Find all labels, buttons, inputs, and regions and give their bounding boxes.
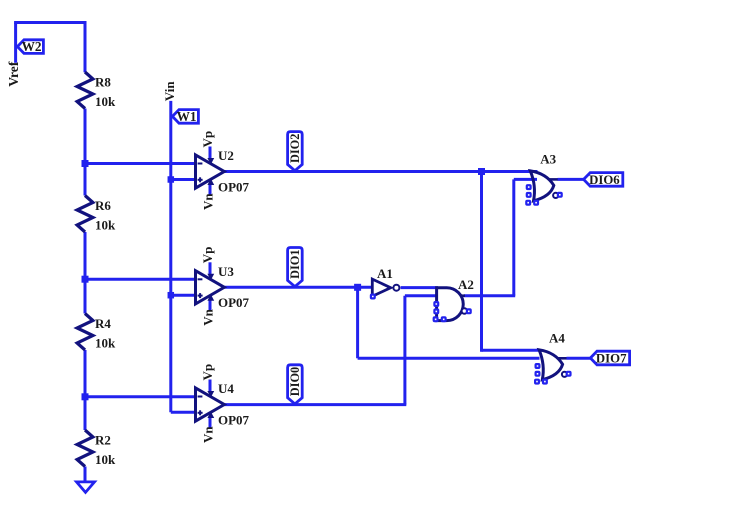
wire to A3 input 2 <box>514 178 537 181</box>
wire to A2 input 2 <box>405 294 437 297</box>
wire Vin vertical <box>169 101 172 412</box>
logic gate A4 input pin squares <box>536 364 540 368</box>
svg-text:A4: A4 <box>549 331 565 346</box>
svg-text:W2: W2 <box>22 39 42 54</box>
op-amp U4 non-inverting input mark <box>198 412 203 414</box>
wire ladder R6-R4 segment <box>84 232 87 314</box>
wire tap node A to U2 inverting input <box>85 162 194 165</box>
logic gate A4 output stub <box>558 357 567 360</box>
wire A4 output to DIO7 <box>567 357 592 360</box>
svg-text:10k: 10k <box>95 94 116 109</box>
op-amp U2 body <box>196 155 225 188</box>
resistor R4 <box>77 314 93 351</box>
ground symbol <box>77 482 95 493</box>
svg-text:OP07: OP07 <box>218 179 250 194</box>
logic gate A2 body <box>437 288 464 321</box>
svg-text:A1: A1 <box>377 266 393 281</box>
logic gate A2 input pin squares <box>434 302 438 306</box>
logic gate A2 output bubble <box>462 308 468 314</box>
svg-text:Vn: Vn <box>201 193 216 210</box>
svg-text:R4: R4 <box>95 316 111 331</box>
inverter A1 output bubble <box>393 285 399 291</box>
resistor R2 <box>77 430 93 467</box>
op-amp U3 Vn power pin <box>209 300 212 311</box>
wire A2 output vertical rise <box>512 179 515 295</box>
inverter A1 body <box>372 279 390 296</box>
wire node DIO2net vertical drop <box>480 172 483 352</box>
wire U4 output horizontal <box>224 403 406 406</box>
wire A2 output horizontal <box>464 294 515 297</box>
wire node DIO1net vertical drop <box>356 287 359 358</box>
net flag DIO0 <box>288 365 303 404</box>
wire top horizontal Vref to ladder <box>14 21 86 24</box>
junction ladder tap B <box>82 276 89 283</box>
net flag DIO1 <box>288 248 303 287</box>
wire Vin to U2 non-inverting input <box>171 178 194 181</box>
svg-text:Vref: Vref <box>6 61 21 87</box>
wire to A4 input 1 <box>482 349 540 352</box>
op-amp U4 Vp power pin <box>209 380 212 393</box>
svg-text:W1: W1 <box>177 109 197 124</box>
logic gate A4 output pin square <box>567 372 571 376</box>
op-amp U2 Vn power pin <box>209 184 212 195</box>
wire U3 output to A1 input <box>224 286 372 289</box>
svg-text:Vp: Vp <box>200 131 215 148</box>
wire ladder R2-ground segment <box>84 467 87 482</box>
net flag DIO6 <box>584 173 623 187</box>
junction ladder tap C <box>82 393 89 400</box>
net flag W2 <box>17 40 43 54</box>
logic gate A2 output stub <box>460 294 465 297</box>
net flag DIO7 <box>590 351 629 365</box>
op-amp U3 inverting input mark <box>198 278 203 280</box>
op-amp U2 non-inverting input mark <box>198 179 203 181</box>
svg-text:U3: U3 <box>218 264 234 279</box>
wire tap node C to U4 inverting input <box>85 395 194 398</box>
wire ladder R8-R6 segment <box>84 109 87 196</box>
wire ladder top vertical <box>84 21 87 72</box>
op-amp U4 body <box>196 388 225 421</box>
wire ladder R4-R2 segment <box>84 350 87 430</box>
wire U2 output to A3 input 1 <box>224 170 538 173</box>
op-amp U3 non-inverting input mark <box>198 295 203 297</box>
wire A1 output to A2 input 1 <box>401 286 438 289</box>
op-amp U2 inverting input mark <box>198 163 203 165</box>
svg-text:10k: 10k <box>95 335 116 350</box>
svg-text:DIO6: DIO6 <box>589 173 620 187</box>
junction Vin-U3 <box>168 292 175 299</box>
wire A3 output to DIO6 <box>558 178 585 181</box>
svg-text:DIO2: DIO2 <box>288 134 302 163</box>
logic gate A3 body <box>530 171 554 201</box>
svg-text:OP07: OP07 <box>218 412 250 427</box>
wire Vref stub vertical <box>14 23 17 63</box>
op-amp U3 body <box>196 271 225 304</box>
svg-text:OP07: OP07 <box>218 295 250 310</box>
logic gate A3 output stub <box>549 178 558 181</box>
wire U4 output vertical rise <box>403 296 406 405</box>
junction Vin-U2 <box>168 176 175 183</box>
logic gate A2 output pin square <box>467 309 471 313</box>
svg-text:A3: A3 <box>540 152 556 167</box>
svg-text:Vn: Vn <box>201 308 216 325</box>
wire Vin to U3 non-inverting input <box>171 294 194 297</box>
logic gate A4 body <box>539 350 563 380</box>
svg-text:Vp: Vp <box>200 247 215 264</box>
junction U3 output node <box>354 284 361 291</box>
svg-text:R6: R6 <box>95 198 111 213</box>
op-amp U4 Vn power pin <box>209 417 212 428</box>
op-amp U3 Vp power pin <box>209 262 212 275</box>
svg-text:Vin: Vin <box>162 81 177 102</box>
svg-text:R2: R2 <box>95 433 111 448</box>
logic gate A4 output bubble <box>562 372 567 377</box>
net flag W1 <box>172 110 198 124</box>
resistor R6 <box>77 196 93 233</box>
svg-text:Vp: Vp <box>200 364 215 381</box>
resistor R8 <box>77 72 93 109</box>
svg-text:10k: 10k <box>95 217 116 232</box>
net flag DIO2 <box>288 132 303 171</box>
svg-text:DIO0: DIO0 <box>288 367 302 396</box>
logic gate A3 output pin square <box>558 193 562 197</box>
svg-text:U2: U2 <box>218 148 234 163</box>
junction U2 output node <box>478 168 485 175</box>
wire to A4 input 2 <box>358 357 540 360</box>
svg-text:DIO7: DIO7 <box>596 352 627 366</box>
logic gate A3 output bubble <box>553 193 558 198</box>
svg-text:DIO1: DIO1 <box>288 250 302 279</box>
inverter A1 input pin square <box>371 295 375 299</box>
op-amp U2 Vp power pin <box>209 147 212 160</box>
svg-text:10k: 10k <box>95 452 116 467</box>
svg-text:Vn: Vn <box>201 426 216 443</box>
wire tap node B to U3 inverting input <box>85 278 194 281</box>
junction ladder tap A <box>82 160 89 167</box>
svg-text:A2: A2 <box>458 277 474 292</box>
svg-text:R8: R8 <box>95 75 111 90</box>
logic gate A3 input pin squares <box>527 185 531 189</box>
wire Vin to U4 non-inverting input <box>171 411 194 414</box>
svg-text:U4: U4 <box>218 381 234 396</box>
op-amp U4 inverting input mark <box>198 396 203 398</box>
